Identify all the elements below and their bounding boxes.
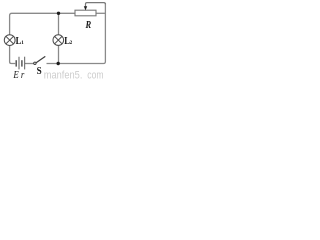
wire: rheostat right to right edge xyxy=(96,12,105,14)
switch S contact circle xyxy=(34,62,36,64)
node: top junction dot xyxy=(57,12,60,15)
wire battery to switch xyxy=(25,63,34,65)
switch lever xyxy=(36,56,45,62)
svg-text:R: R xyxy=(85,21,92,32)
lamp L2 xyxy=(53,35,64,46)
battery E r (two cells) xyxy=(16,57,25,70)
svg-text:1: 1 xyxy=(21,40,24,46)
rheostat R body xyxy=(75,10,96,16)
wire top: from top-left corner to rheostat xyxy=(10,13,75,34)
svg-text:manfen5.: manfen5. xyxy=(44,69,83,81)
wire right side vertical with bottom-right corner xyxy=(47,3,106,63)
rheostat wiper arrowhead xyxy=(84,6,87,10)
svg-text:S: S xyxy=(37,65,42,77)
svg-text:E: E xyxy=(13,69,19,81)
wire middle branch (lamp L2) xyxy=(58,13,60,63)
svg-text:r: r xyxy=(21,69,25,81)
wire bottom-left corner up to lamp L1 xyxy=(10,46,16,64)
svg-text:2: 2 xyxy=(70,40,73,46)
node: bottom junction dot xyxy=(57,62,60,65)
svg-text:com: com xyxy=(87,69,103,81)
rheostat wiper wire xyxy=(86,3,106,7)
lamp L1 xyxy=(4,35,15,46)
